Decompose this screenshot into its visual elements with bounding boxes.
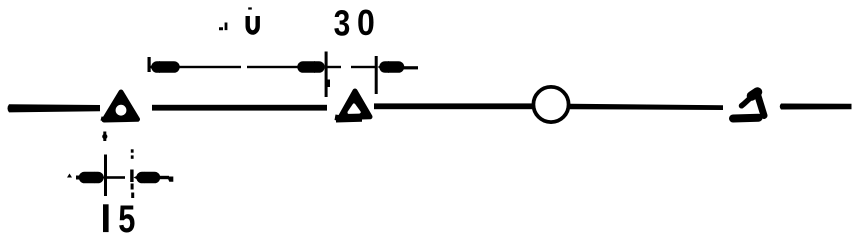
- svg-text:3: 3: [334, 4, 351, 44]
- label: faded digit remnant left of the u-shape: [219, 23, 227, 31]
- survey station triangle 1 (solid with open circle centre): [104, 92, 138, 120]
- dimension arrow pointing left, tip at tick x=376: [378, 61, 390, 73]
- wire: main line segment D (circle to triangle 3): [570, 104, 723, 110]
- dimension arrow pointing left, tip at x=134 (dim 15): [134, 172, 146, 183]
- extension line below triangle 1 (dashed): [103, 132, 106, 142]
- wire: upper dimension line (left span, with scan gap): [176, 66, 241, 68]
- small dash left of lower dimension: [67, 174, 72, 178]
- label: dimension text 15: [103, 204, 109, 232]
- survey station triangle 3 (sketchy open triangle): [733, 92, 764, 119]
- wire: tail of right arrow: [401, 66, 418, 69]
- wire: lower dimension line stub: [106, 176, 125, 179]
- label: faded digit 0 rendered as u-shape with accent: [248, 7, 252, 9]
- dimension arrow pointing left, tip at x=149: [149, 61, 161, 73]
- dimension tick at left end of upper dimension line: [148, 57, 151, 72]
- wire: dimension line between ticks: [327, 66, 341, 68]
- extension tick 1 (x=326): [325, 52, 328, 98]
- wire: main line segment B (triangle 1 to triangle 2): [152, 105, 327, 111]
- dimension arrow pointing right, tip at tick x=326: [314, 61, 326, 73]
- extension line 2 of lower dimension (dashed, x=132): [131, 149, 134, 152]
- survey station triangle 2 (solid with open circle centre): [340, 91, 370, 118]
- svg-text:0: 0: [357, 3, 375, 43]
- svg-text:5: 5: [118, 198, 135, 239]
- wire: main line segment A (left end): [8, 104, 101, 112]
- wire: tail of lower right arrow with hook: [157, 176, 169, 179]
- circle station (open circle on line): [533, 87, 568, 122]
- wire: main line segment E (right end): [780, 104, 852, 110]
- extension tick 2 (x=376): [375, 56, 378, 94]
- dimension arrow pointing right, tip at x=105 (dim 15): [76, 176, 84, 180]
- wire: main line segment C (triangle 2 to circle): [374, 103, 532, 109]
